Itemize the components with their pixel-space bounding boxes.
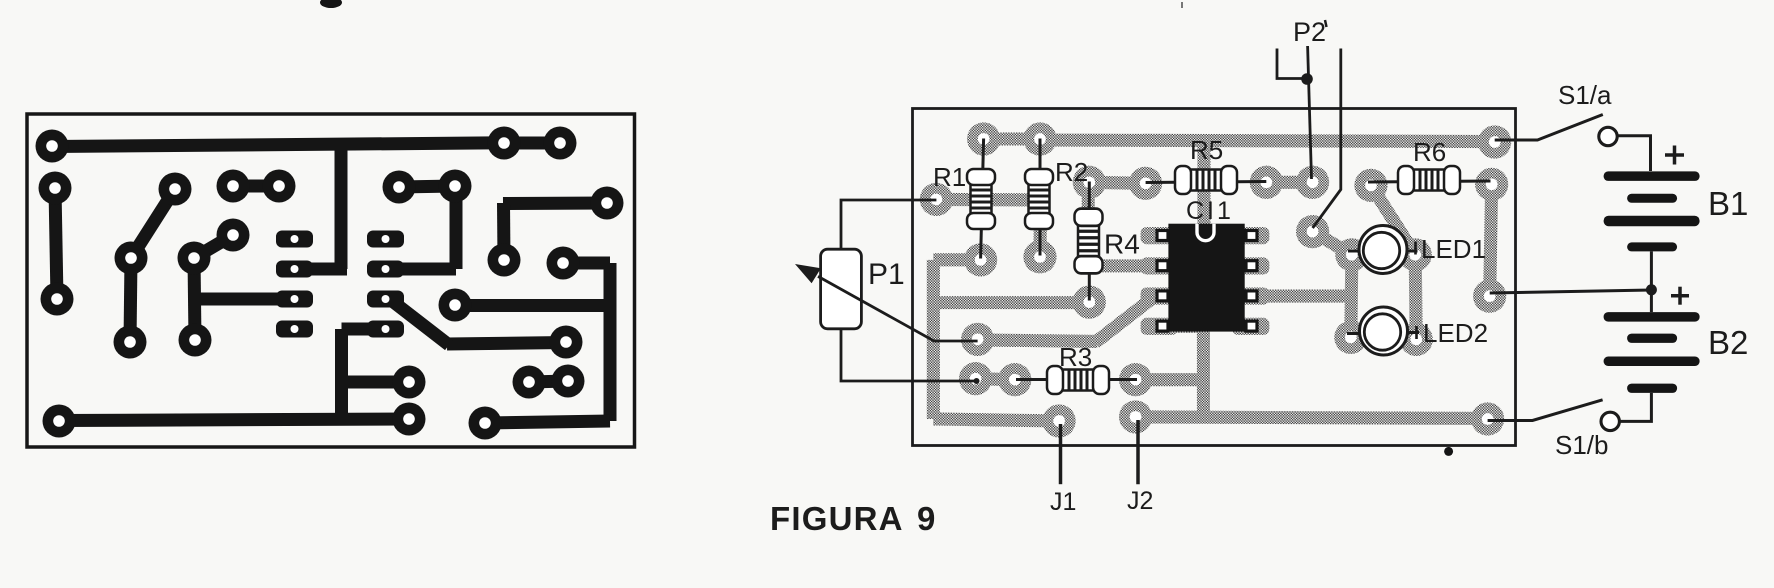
svg-text:9: 9 [917, 500, 935, 537]
switch S1/a contact [1599, 127, 1617, 145]
node P1 bottom lead end [974, 378, 980, 384]
pad H2 [1073, 166, 1106, 199]
wire V2 vertical [1197, 326, 1210, 418]
wire K down [1033, 199, 1047, 256]
wire P2 lead b [1313, 49, 1341, 229]
wire diagonal F1-F2 [1313, 232, 1352, 255]
switch S1/a arm [1495, 115, 1603, 141]
svg-text:FIGURA: FIGURA [770, 500, 904, 537]
node battery junction [1646, 284, 1657, 295]
svg-text:P2: P2 [1293, 17, 1326, 47]
pad K2 [1023, 240, 1056, 273]
svg-text:R6: R6 [1413, 137, 1446, 167]
IC CI1 pin 4 [1157, 321, 1168, 331]
pad F3 [1334, 321, 1367, 354]
IC CI1 pin 3 [1157, 291, 1168, 301]
pad N1 [998, 363, 1031, 396]
pad E1 [1354, 169, 1387, 202]
jumper J1 [1059, 424, 1063, 484]
svg-text:B2: B2 [1708, 324, 1748, 361]
wire H2 down [1082, 182, 1095, 266]
wire B2 to S1/b [1619, 393, 1651, 422]
pad E2 [1399, 238, 1432, 271]
svg-text:S1/a: S1/a [1558, 80, 1612, 110]
svg-text:B1: B1 [1708, 185, 1748, 222]
wire P2 lead a [1308, 46, 1312, 179]
svg-text:R1: R1 [933, 162, 966, 192]
wire top trace [1038, 140, 1495, 142]
pad IC pin6 [1141, 288, 1178, 305]
IC CI1 pin 6 [1246, 291, 1257, 301]
pad IC pin4 [1232, 318, 1269, 335]
pad M1 [961, 323, 994, 356]
resistor R4 lead [1088, 182, 1091, 301]
LED LED1 [1348, 226, 1418, 274]
pad F2 [1335, 238, 1368, 271]
wire diagonal to IC pin6 [1095, 294, 1157, 342]
pad B [1475, 168, 1508, 201]
wire P1 bottom lead [841, 329, 977, 381]
pad N2 [959, 362, 992, 395]
svg-text:S1/b: S1/b [1555, 430, 1609, 460]
resistor R6 lead [1368, 181, 1491, 182]
wire left vertical B-C [1490, 184, 1492, 296]
pad E3 [1400, 323, 1433, 356]
battery B1 [1604, 171, 1700, 251]
svg-text:P1: P1 [868, 258, 905, 291]
pad IC pin2 [1232, 257, 1269, 274]
resistor R1 [967, 169, 995, 229]
resistor R4 [1075, 209, 1103, 274]
pad A [1478, 125, 1511, 158]
svg-text:R2: R2 [1055, 157, 1088, 187]
pad D [1471, 402, 1504, 435]
svg-text:LED2: LED2 [1423, 318, 1488, 348]
pad G1 [1296, 166, 1329, 199]
switch S1/b contact [1601, 412, 1619, 430]
pad F1 [1296, 215, 1329, 248]
wire pair N1-N2 [976, 379, 1015, 380]
pad O2 [1119, 363, 1152, 396]
pad G2 [1250, 166, 1283, 199]
resistor R6 [1398, 166, 1460, 194]
wire diagonal E1-E2 [1371, 185, 1415, 254]
IC CI1 pin 1 [1157, 231, 1168, 241]
wire L1 right [933, 253, 980, 266]
wire right vertical [927, 260, 940, 419]
copper traces black [36, 127, 624, 440]
svg-text:R5: R5 [1190, 135, 1223, 165]
board outline left [27, 114, 635, 447]
pad I1 [1023, 122, 1056, 155]
resistor R3 [1047, 366, 1109, 394]
wire bottom trace [1136, 417, 1488, 419]
wire branch to IC pin3 [1251, 290, 1351, 303]
wire battery middle [1490, 290, 1652, 293]
node P2 dot [1301, 73, 1313, 85]
jumper J2 [1136, 420, 1140, 484]
wire M1 left [978, 340, 1098, 342]
pad I2 [967, 122, 1000, 155]
label B2 plus [1671, 287, 1689, 305]
potentiometer P1 body [821, 249, 862, 329]
wire V1 elbow [1198, 259, 1251, 272]
wire vertical E2-E3 [1415, 255, 1416, 340]
pad IC pin5 [1141, 318, 1178, 335]
wire branch O2 [1136, 373, 1204, 386]
resistor R3 lead [1016, 378, 1137, 381]
IC CI1 pin 5 [1246, 321, 1257, 331]
pad L1 [964, 243, 997, 276]
pad IC pin8 [1141, 227, 1178, 244]
stray ink mark top [320, 0, 342, 8]
pad IC pin3 [1232, 288, 1269, 305]
op-amp U1 : IC CI1 body [1168, 224, 1244, 332]
wire pair H1-H2 [1089, 182, 1145, 183]
pad H1 [1129, 167, 1162, 200]
svg-text:J2: J2 [1127, 487, 1153, 515]
svg-text:LED1: LED1 [1421, 234, 1486, 264]
IC CI1 pin 7 [1246, 261, 1257, 271]
pad C [1473, 279, 1506, 312]
wire P2 bracket [1277, 49, 1303, 79]
stray tick top [1181, 2, 1183, 8]
svg-text:CI1: CI1 [1186, 197, 1234, 225]
pad IC pin1 [1232, 227, 1269, 244]
svg-text:R4: R4 [1104, 229, 1140, 260]
stray dot below board [1444, 447, 1453, 456]
wire vertical F2-F3 [1351, 255, 1352, 338]
pad K1 [920, 183, 953, 216]
wire branch L2 [933, 296, 1089, 309]
svg-text:R3: R3 [1059, 342, 1092, 372]
wire pair G1-G2 [1266, 176, 1312, 189]
battery B2 [1604, 312, 1700, 393]
IC CI1 pin 8 [1246, 231, 1257, 241]
resistor R2 [1025, 169, 1053, 229]
LED LED2 [1347, 307, 1419, 355]
resistor R5 [1175, 166, 1237, 194]
wire K1 left [936, 193, 1041, 207]
pad IC pin7 [1141, 257, 1178, 274]
wire H2 elbow to IC [1088, 259, 1159, 272]
pad O1 [1119, 400, 1152, 433]
wire pair I1-I2 [984, 133, 1040, 146]
wire V1 vertical to IC pad [1197, 137, 1210, 266]
pad L3 [1042, 404, 1075, 437]
pad L2 [1073, 286, 1106, 319]
board outline right [913, 109, 1516, 446]
resistor R2 lead [1039, 139, 1042, 256]
IC CI1 notch [1197, 224, 1214, 241]
label B1 plus [1665, 146, 1684, 165]
svg-text:J1: J1 [1050, 488, 1076, 516]
resistor R5 lead [1146, 182, 1267, 183]
switch S1/b arm [1488, 400, 1603, 421]
wire P1 top lead [841, 200, 936, 249]
wire IC pin5 elbow [1160, 320, 1204, 333]
IC CI1 pin 2 [1157, 261, 1168, 271]
wire S1/a to B1 [1617, 136, 1651, 171]
resistor R1 lead [981, 139, 984, 259]
wire P1 wiper arrow [818, 276, 978, 341]
wire bottom right [933, 419, 1059, 421]
copper traces gray mirrored [920, 122, 1512, 437]
